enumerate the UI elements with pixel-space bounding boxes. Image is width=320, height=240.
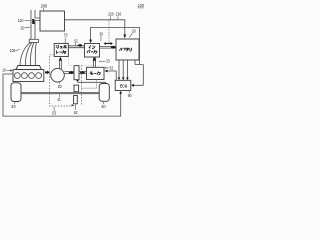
label 30 — [99, 32, 103, 42]
engine block 10 — [13, 70, 44, 82]
gear bar 1 — [74, 66, 79, 80]
engine to ECU wire (left,bottom) — [3, 74, 121, 116]
right wheel 40 — [99, 84, 109, 102]
axle — [21, 92, 99, 93]
generator-inverter wire 52 — [68, 46, 84, 48]
wire 216: box200 to battery — [65, 20, 127, 39]
arrow down from gear — [76, 80, 79, 82]
intake flange — [29, 39, 38, 42]
svg-text:100: 100 — [138, 3, 145, 8]
label 10 — [2, 68, 12, 73]
dashed line gen-motor area — [68, 57, 93, 66]
ECU box — [115, 80, 131, 90]
svg-text:33: 33 — [106, 59, 110, 64]
box 200 — [40, 11, 65, 31]
dashed vertical to gears — [81, 65, 83, 105]
svg-text:52: 52 — [74, 38, 78, 43]
faint line motor bottom hook — [81, 80, 96, 89]
arrow to motor — [80, 71, 85, 75]
battery box 20 — [116, 39, 139, 60]
label 220 — [108, 12, 114, 20]
inverter-motor link — [93, 57, 97, 67]
svg-text:30: 30 — [99, 32, 103, 37]
svg-text:41: 41 — [57, 97, 61, 102]
label 70 — [64, 33, 68, 44]
arrow toward generator — [77, 44, 82, 47]
svg-text:70: 70 — [64, 33, 68, 38]
arrow into battery — [111, 46, 116, 49]
label 62 — [74, 104, 78, 115]
label 105 — [10, 48, 20, 53]
manifold runners 105 — [20, 42, 36, 65]
svg-text:15: 15 — [20, 26, 24, 31]
svg-text:10: 10 — [2, 68, 6, 73]
arrow into ECU right — [131, 84, 134, 87]
svg-text:105: 105 — [10, 48, 16, 53]
svg-text:40: 40 — [101, 104, 106, 109]
label 200 — [41, 3, 48, 11]
label 60 — [58, 82, 62, 89]
svg-text:62: 62 — [74, 110, 78, 115]
engine shaft to gear — [64, 72, 74, 74]
svg-text:200: 200 — [41, 3, 48, 8]
svg-text:40: 40 — [11, 104, 16, 109]
label 52 — [74, 38, 78, 45]
throttle 15 — [32, 19, 34, 24]
svg-text:60: 60 — [58, 84, 62, 89]
generator link — [59, 57, 63, 69]
generator box 70 — [54, 43, 68, 56]
generator text line2 (kana) — [56, 50, 65, 53]
svg-text:216: 216 — [116, 12, 122, 17]
dashed control line 53 — [50, 55, 75, 107]
arrow on shaft — [69, 71, 74, 75]
label 53 — [52, 107, 56, 116]
svg-text:220: 220 — [108, 12, 114, 17]
inverter box 30 — [85, 44, 100, 58]
arrow engine to power split — [45, 71, 50, 75]
label 33 — [99, 59, 110, 64]
inverter text line1 — [89, 45, 95, 48]
svg-text:110: 110 — [18, 18, 24, 23]
intake pipe 110 — [31, 10, 35, 39]
ECU-inverter loop wire — [91, 28, 144, 86]
pipe to box 200 connector — [35, 18, 40, 21]
generator text line1 (kana) — [56, 45, 66, 48]
battery text (kana) — [120, 48, 132, 51]
left wheel 40 — [11, 83, 21, 102]
manifold base — [16, 66, 42, 70]
svg-text:ECU: ECU — [120, 84, 128, 89]
line under motor to right wheel — [78, 82, 106, 83]
inverter-battery wire — [100, 46, 117, 48]
shaft to motor — [79, 72, 87, 74]
bidirectional arrow symbol — [104, 42, 113, 45]
figure number 100 — [138, 3, 145, 8]
ECU to motor wire — [104, 70, 116, 81]
label 90 — [128, 91, 132, 98]
label 20 — [129, 28, 135, 37]
dashed line 220 — [108, 20, 110, 42]
inverter text line2 — [87, 50, 97, 54]
label 32 — [105, 65, 114, 70]
label 15 — [20, 26, 30, 31]
gear bar 2 — [74, 85, 79, 92]
battery-ECU lines — [118, 60, 129, 80]
svg-text:32: 32 — [109, 65, 113, 70]
svg-text:53: 53 — [52, 110, 56, 115]
svg-text:20: 20 — [132, 28, 136, 33]
label 41 — [57, 94, 61, 102]
motor text (kana) — [90, 72, 100, 75]
motor box 32 — [87, 67, 105, 79]
label 216 — [116, 12, 122, 20]
power split device 60 — [51, 68, 65, 82]
svg-text:90: 90 — [128, 93, 132, 98]
arrow into inverter top — [89, 40, 92, 44]
arrow into ECU bottom — [119, 91, 122, 94]
label 110 — [18, 18, 31, 23]
gear bar 3 (62) — [74, 96, 78, 104]
